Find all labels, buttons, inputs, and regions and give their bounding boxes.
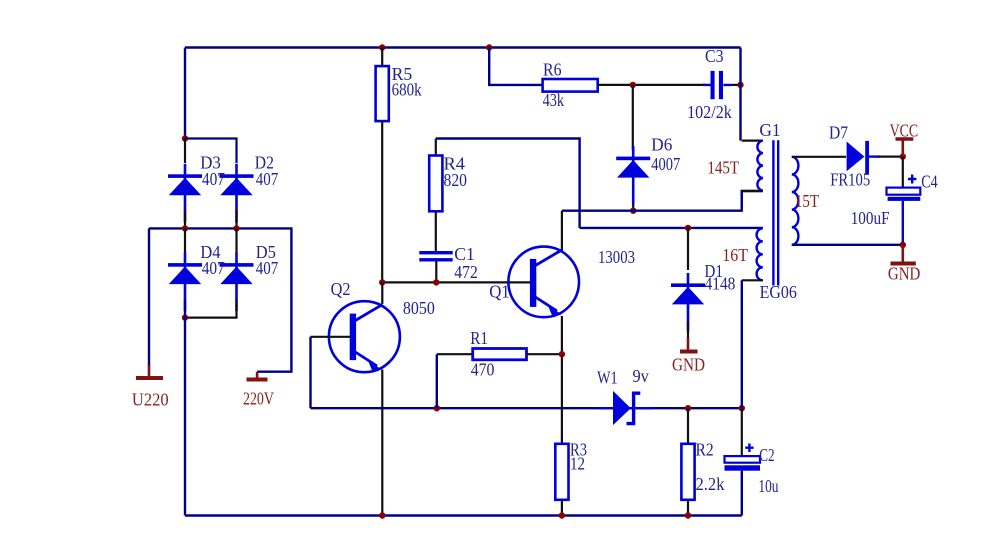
diode D7 [847,141,880,174]
node D1 top junction [685,225,691,231]
svg-text:C3: C3 [705,46,724,66]
transformer core [773,140,778,285]
svg-text:Q1: Q1 [489,282,510,302]
wire drive net rail [311,407,742,409]
capacitor C3 [703,71,731,99]
resistor R1 [473,349,527,360]
wire C4 bottom lead [902,201,904,245]
svg-text:VCC: VCC [890,120,919,140]
svg-text:EG06: EG06 [760,282,797,302]
node C1 bottom junction [433,279,439,285]
wire D6 bottom lead [632,204,634,211]
resistor R4 [429,156,442,212]
svg-text:16T: 16T [722,245,748,265]
svg-text:GND: GND [888,263,920,283]
svg-text:9v: 9v [633,366,649,386]
svg-text:2.2k: 2.2k [696,474,725,494]
wire C1 bottom lead [435,262,437,283]
ground 220V [247,372,268,380]
node R2 top junction [685,405,691,411]
wire Q2 emitter to bottom rail [381,370,383,516]
svg-text:10u: 10u [758,476,778,496]
svg-text:G1: G1 [759,120,780,140]
svg-text:C1: C1 [454,244,475,264]
wire collector net [562,191,763,211]
wire feedback net to 16T [580,227,763,229]
wire R6 to C3 [598,84,706,86]
wire 15T bottom to GND [792,244,903,246]
wire R5 bottom lead [381,121,383,282]
svg-text:U220: U220 [132,390,169,410]
wire R4 top lead [435,139,437,157]
wire C2 top lead [741,408,743,456]
wire Q2 base to drive net [309,337,311,408]
wire Q1 collector lead [561,211,563,250]
diode D3 [168,164,202,223]
svg-text:D6: D6 [651,135,672,155]
wire R2 bottom lead [687,500,689,516]
svg-text:470: 470 [471,360,495,380]
svg-text:R6: R6 [543,59,562,79]
wire D4 top lead [184,228,186,253]
wire R2 top lead [687,408,689,444]
node 16T bottom junction [739,405,745,411]
svg-text:680k: 680k [392,79,422,99]
node R2 bottom junction [685,512,691,518]
node bridge top junction [182,135,188,141]
svg-text:407: 407 [256,169,279,189]
svg-text:820: 820 [444,170,468,190]
wire top right corner down [739,48,741,141]
diode D2 [220,164,254,223]
svg-text:102/2k: 102/2k [687,102,732,122]
node R5 top junction [379,44,385,50]
svg-text:15T: 15T [795,191,819,211]
diode D5 [220,253,254,312]
node output GND junction [900,242,906,248]
svg-text:R2: R2 [696,439,714,459]
wire bottom rail [185,514,742,516]
node R5 bottom junction [379,279,385,285]
svg-text:4148: 4148 [705,274,736,294]
node D2-D5 junction [233,225,239,231]
svg-text:100uF: 100uF [851,208,890,228]
svg-text:C4: C4 [921,172,937,192]
node R6 top junction [486,44,492,50]
svg-text:43k: 43k [543,90,565,110]
node D3-D4 junction [182,225,188,231]
node R3 bottom junction [559,512,565,518]
svg-text:407: 407 [202,258,225,278]
capacitor C1 [419,251,452,262]
wire top rail [185,46,741,48]
wire U220 leg [148,228,150,366]
resistor R2 [681,444,694,500]
wire bridge bottom to bottom rail [184,299,186,516]
node D6 bottom junction [630,208,636,214]
node VCC junction [900,153,906,159]
wire R1 left leg [437,353,473,355]
svg-text:C2: C2 [759,445,774,465]
svg-text:W1: W1 [597,367,618,387]
wire D3 top lead [184,139,186,164]
svg-text:GND: GND [672,355,705,375]
wire Q2 base lead [311,336,351,338]
wire D2 bottom lead [235,210,237,226]
winding primary 145T [742,141,763,191]
wire top rail to R6 [489,48,543,85]
transistor Q2 [329,301,400,372]
node D6 top junction [630,82,636,88]
wire R5 top lead [381,48,383,68]
wire R4 top rail [436,139,580,228]
svg-text:220V: 220V [243,389,274,409]
zener W1 [599,391,654,425]
node R1 emitter junction [559,351,565,357]
wire C2 bottom lead [741,471,743,516]
wire D6 top lead [632,85,634,150]
wire D5 bottom to D4 bottom [185,299,237,318]
wire D5 top lead [235,228,237,253]
svg-text:13003: 13003 [598,247,635,267]
svg-text:FR105: FR105 [830,170,870,190]
wire R4 bottom lead [435,211,437,251]
wire 15T top to D7 [792,156,846,158]
capacitor C4 [887,175,921,201]
node R1 bottom junction [434,405,440,411]
wire primary bottom drop [741,191,743,211]
svg-text:472: 472 [454,262,478,282]
resistor R3 [555,444,568,500]
wire AC middle rail [149,227,291,229]
ground D1 GND [680,338,698,352]
wire D3 bottom lead [184,210,186,226]
svg-text:407: 407 [202,169,225,189]
wire 220V leg [257,227,291,371]
diode D4 [168,253,202,312]
svg-text:4007: 4007 [651,154,680,174]
power VCC symbol [896,139,914,157]
wire Q2 collector lead [381,282,383,304]
wire left vertical [184,48,186,140]
node Q2 emitter junction [379,512,385,518]
ground output GND [891,245,916,264]
svg-text:8050: 8050 [403,298,435,318]
wire 16T bottom leg [741,280,743,408]
ground U220 [136,365,163,378]
wire R3 bottom lead [561,500,563,516]
svg-text:407: 407 [256,258,279,278]
node bridge bottom junction [182,314,188,320]
resistor R6 [543,79,598,92]
svg-text:D7: D7 [829,123,848,143]
wire Q1 base net [382,281,531,283]
diode D1 [671,273,705,332]
wire C3 right lead [731,84,741,86]
resistor R5 [376,66,389,121]
transistor Q1 [508,247,579,318]
svg-text:12: 12 [570,454,585,474]
wire Q1 emitter lead [561,316,563,444]
winding feedback 16T [742,228,763,280]
wire D1 top lead [687,228,689,270]
wire D7 to VCC node [878,156,903,158]
diode D6 [616,146,650,205]
svg-text:Q2: Q2 [331,279,351,299]
wire D1 bottom lead [687,321,689,338]
svg-text:R1: R1 [470,328,488,348]
wire R1 right lead [527,353,562,355]
svg-text:145T: 145T [707,157,739,177]
winding secondary 15T [792,157,799,245]
capacitor C2 [725,444,761,471]
node C3 right junction [737,82,743,88]
wire bridge top to D2 [185,139,237,164]
wire C4 top lead [902,157,904,188]
